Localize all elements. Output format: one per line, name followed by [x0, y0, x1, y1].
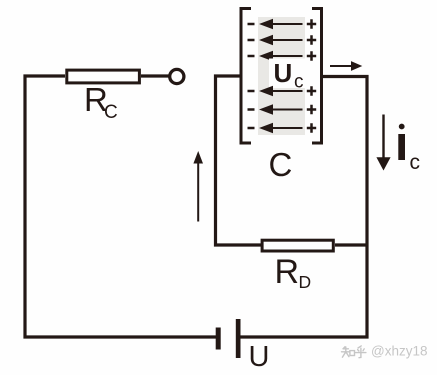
- wire right plate to right side down to bottom: [240, 77, 367, 338]
- svg-text:R: R: [275, 253, 300, 291]
- wire capacitor branch: left plate to vertical drop to R_D: [216, 76, 262, 245]
- watermark zhihu logo glyphs: [342, 346, 366, 358]
- resistor R1 box (R_C): [67, 70, 140, 83]
- svg-text:U: U: [274, 58, 293, 88]
- wire resistor to switch terminal: [141, 74, 169, 77]
- current direction arrow (top, rightward): [330, 65, 354, 67]
- current arrow down i_c: [382, 115, 384, 159]
- charge row 1: minus, field arrow, plus: [248, 19, 317, 28]
- svg-text:c: c: [294, 72, 304, 93]
- label U_c background: [269, 59, 305, 89]
- svg-text:C: C: [104, 102, 118, 123]
- switch terminal (open circle): [170, 69, 184, 83]
- resistor R2 box (R_D): [262, 240, 333, 251]
- capacitor C right plate: [312, 9, 322, 144]
- label i_c: [398, 134, 405, 160]
- battery positive plate (long): [236, 319, 241, 358]
- charge row 3: minus, field arrow, plus: [248, 51, 317, 60]
- charge row 2: minus, field arrow, plus: [248, 35, 317, 44]
- svg-text:c: c: [410, 151, 421, 174]
- current arrow up (middle branch): [197, 162, 199, 222]
- svg-text:U: U: [249, 341, 270, 373]
- capacitor dielectric shading: [258, 17, 305, 135]
- wire top-left + left side + bottom to battery: [25, 76, 216, 337]
- svg-text:D: D: [299, 272, 312, 292]
- wire R_D to right side: [335, 243, 367, 246]
- svg-text:@xhzy18: @xhzy18: [371, 344, 427, 359]
- charge row 5: minus, field arrow, plus: [248, 105, 317, 114]
- charge row 4: minus, field arrow, plus: [248, 86, 317, 95]
- svg-text:C: C: [269, 146, 293, 183]
- battery negative plate (short): [216, 328, 221, 350]
- charge row 6: minus, field arrow, plus: [248, 123, 317, 132]
- capacitor C left plate: [241, 9, 251, 144]
